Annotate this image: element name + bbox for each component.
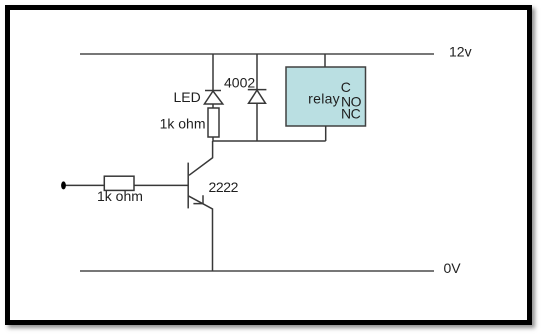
svg-text:NC: NC xyxy=(341,106,361,122)
svg-text:relay: relay xyxy=(308,91,340,107)
svg-text:12v: 12v xyxy=(449,44,472,60)
svg-text:4002: 4002 xyxy=(224,75,255,91)
svg-text:1k ohm: 1k ohm xyxy=(160,116,206,132)
svg-text:1k ohm: 1k ohm xyxy=(97,188,143,204)
svg-text:2222: 2222 xyxy=(209,179,239,195)
svg-text:0V: 0V xyxy=(444,260,462,276)
svg-text:LED: LED xyxy=(174,89,201,105)
